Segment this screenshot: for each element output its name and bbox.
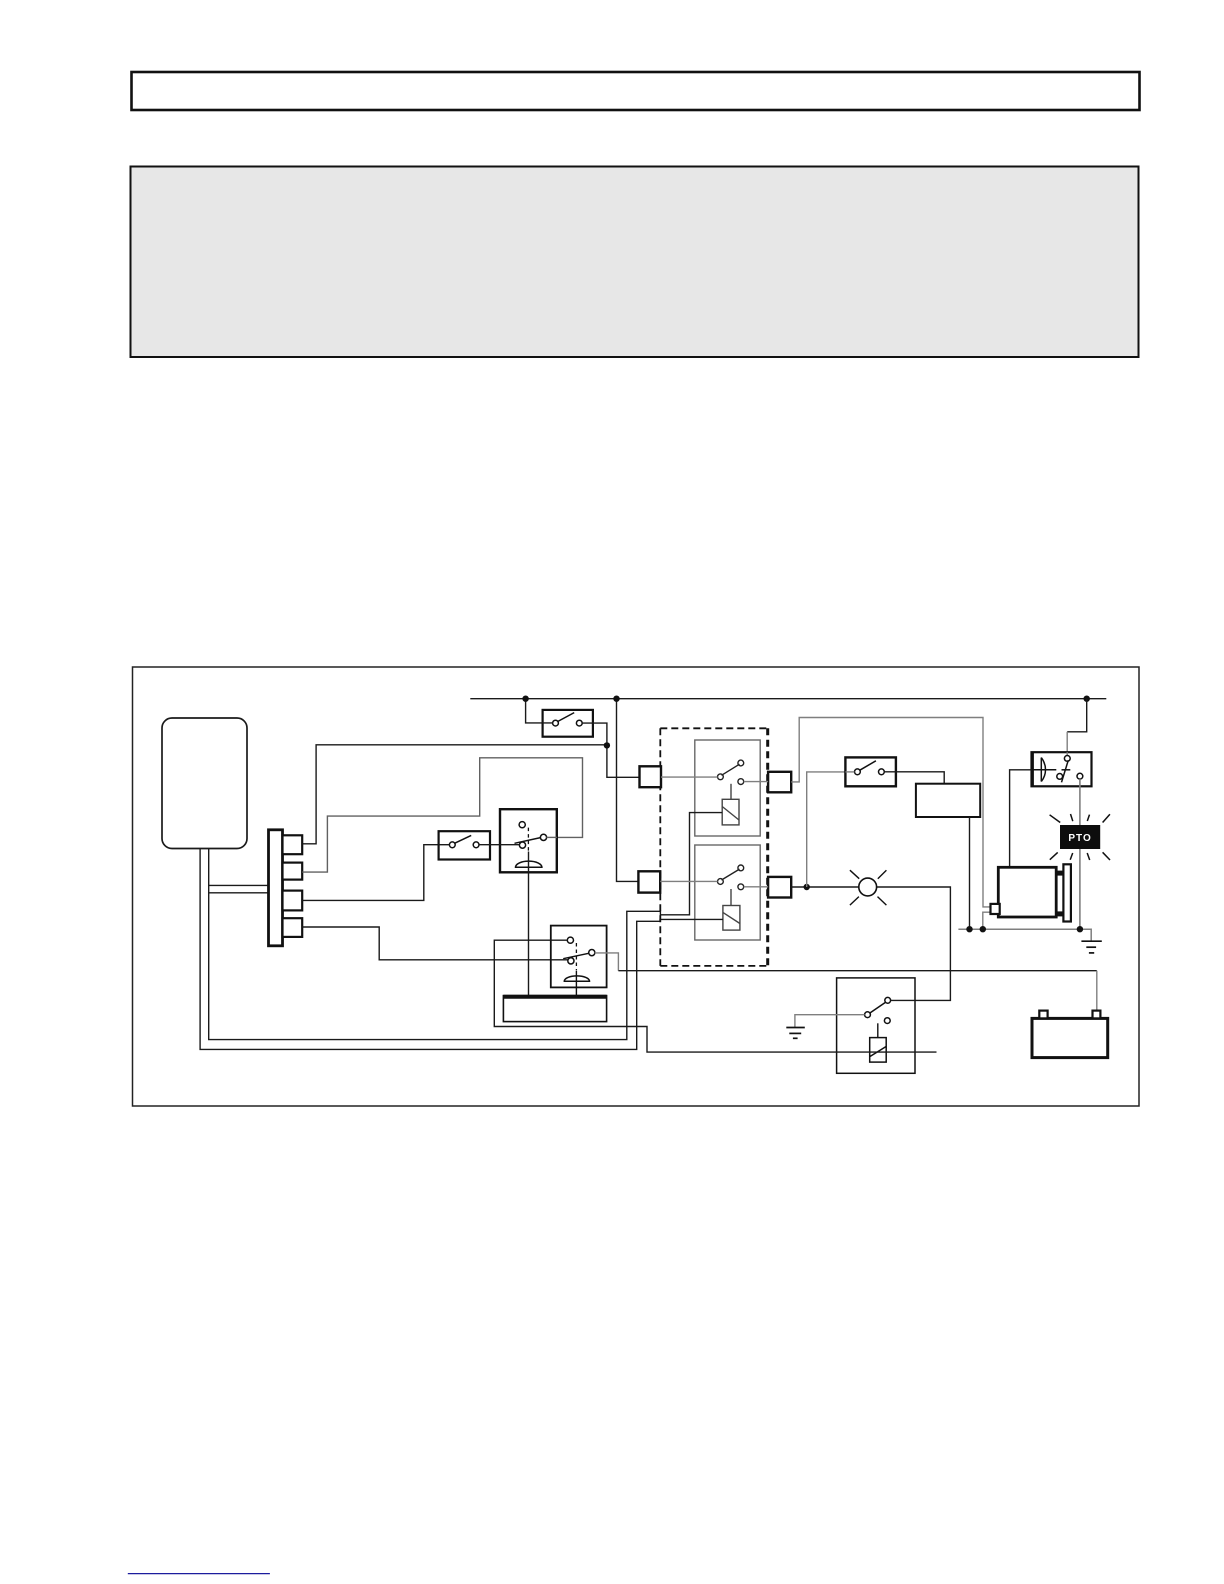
motor connector bar upper [1056,871,1063,876]
wire K1 coil feed tail [694,812,722,814]
wire P2 to K2 (gray) [660,880,717,882]
wire P4 to lamp [791,886,859,888]
node junction top 2 [613,696,619,702]
meter box U1 [916,784,980,817]
wire S3 to key switch S4 [479,844,520,846]
square P2 (connector) [638,871,660,892]
key switch S4 [500,809,557,872]
note box (gray, empty) [131,167,1139,358]
wire K1 to P3 (gray) [744,781,768,783]
ignition switch housing [551,926,607,988]
wire ignition ground loop [494,940,936,1052]
PTO indicator label [1060,825,1100,849]
wire pin2 to key switch S4 (gray) [302,758,582,872]
wire pin3 tail [439,844,450,846]
PTO switch S3 [439,831,490,859]
PTO starburst rays [1050,814,1110,860]
wire drop to switch S1 [526,699,553,723]
connector block J1 [269,830,283,946]
wire pin4 tail [551,959,568,961]
battery BT1 [1032,1011,1108,1058]
relay K2 coil [723,906,740,931]
footer rule (blue) [128,1573,270,1575]
square P1 (connector) [640,766,662,787]
pin 3 [283,891,303,911]
wire S5 output to battery [595,953,619,971]
wire K3 to ground (gray) [795,1015,865,1028]
wire lamp to K3 tail [891,999,915,1001]
motor connector bar lower [1056,911,1063,916]
starter relay K3 coil [870,1038,887,1063]
dashed interlock module outline [660,728,767,966]
switch S1 [543,710,593,737]
wire lamp to starter relay [877,887,951,1000]
node junction bus 2 [980,926,986,932]
wire S2 to meter box [884,772,944,784]
square P4 (connector) [768,877,791,898]
starter relay K3 [837,978,915,1073]
schematic frame [133,667,1140,1106]
node B junction [804,884,810,890]
wire motor tab down to bus (gray) [983,912,991,929]
ground G1 [1081,941,1101,953]
wire stub to connector left lower [209,892,269,894]
pin 2 [283,863,303,880]
wire S4 key barrel down to switch base [528,852,530,996]
relay K1 box [695,740,760,836]
switch S2 [845,757,896,786]
svg-text:PTO: PTO [1068,833,1091,844]
wire P1 to K1 (gray) [661,776,718,778]
wire pin4 to ignition switch S5 [302,927,568,960]
motor body [998,867,1056,917]
wire K2 coil feed tail [694,918,723,920]
wire drop to square P2 [617,699,639,882]
node junction top 3 [1084,696,1090,702]
wire node B up to switch S2 (gray) [807,772,846,887]
wire pin1 to node A [302,745,607,844]
wire module pin A to bus2 to relay K2 coil [200,849,722,1050]
wire S1 out to square P1 [582,723,639,777]
wire pin3 to PTO switch S3 [302,845,450,901]
wire top line to solenoid [1067,699,1087,732]
wire node B to S2 tail (gray) [845,771,854,773]
relay K1 coil [722,799,739,825]
pin 1 [283,835,303,854]
square P3 (connector) [768,772,791,793]
relay K2 box [695,845,760,940]
node A junction [604,742,610,748]
ignition switch S5 internals [563,937,595,995]
title box (empty) [132,72,1140,110]
wire P3 up over to motor tab (gray) [791,718,990,907]
wire stub to connector left upper [209,884,269,886]
motor brush plate [1063,864,1071,921]
pin 4 [283,918,303,937]
motor tab [991,904,1000,914]
lamp L1 [850,870,887,905]
wire top supply line [470,698,1106,700]
wire module pin B down [209,813,723,1040]
module M1 (control module, rounded box) [162,718,247,849]
wire K2 to P4 (gray) [744,886,768,888]
switch base plate [503,996,606,1022]
wire solenoid to motor [1010,770,1032,868]
node junction bus 3 [1077,926,1083,932]
ground bus (gray) [958,929,1091,941]
wire solenoid to PTO clutch (gray) [1079,779,1081,929]
node junction top 1 [522,696,528,702]
wire key S4 output tail (gray) [546,836,557,838]
wire meter box down to bus [969,817,971,929]
ground G2 [786,1028,805,1039]
node junction bus 1 [966,926,972,932]
solenoid SOL box [1032,752,1092,786]
